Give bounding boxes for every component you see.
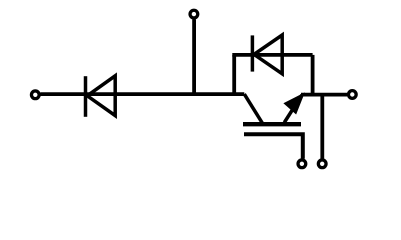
- wire from T2 down to main wire: [192, 19, 196, 94]
- terminal T2 (top): [190, 10, 198, 18]
- wire loop left vertical (collector node up to top diode): [232, 55, 236, 94]
- wire loop right vertical (down to emitter rail): [311, 55, 315, 95]
- wire emitter rail: [301, 93, 347, 97]
- diode D1 cathode bar: [84, 76, 88, 117]
- transistor Q1 emitter slant: [284, 95, 302, 123]
- transistor Q1 emitter arrowhead: [285, 94, 304, 113]
- wire loop top horizontal: [232, 53, 312, 57]
- terminal T3 (right, emitter): [348, 91, 356, 99]
- diode D1 triangle: [87, 76, 115, 116]
- diode D2 triangle: [254, 35, 282, 74]
- terminal T4 (gate, bottom left): [298, 160, 306, 168]
- transistor Q1 gate plate with lead down: [244, 134, 303, 159]
- terminal T1 (left, collector of series diode): [31, 91, 39, 99]
- wire auxiliary emitter vertical: [320, 95, 324, 159]
- diode D2 cathode bar: [251, 35, 255, 71]
- terminal T5 (aux emitter, bottom right): [318, 160, 326, 168]
- transistor Q1 body bar: [243, 122, 301, 126]
- wire main horizontal from T1 to collector node: [41, 92, 245, 96]
- transistor Q1 collector slant: [244, 94, 262, 123]
